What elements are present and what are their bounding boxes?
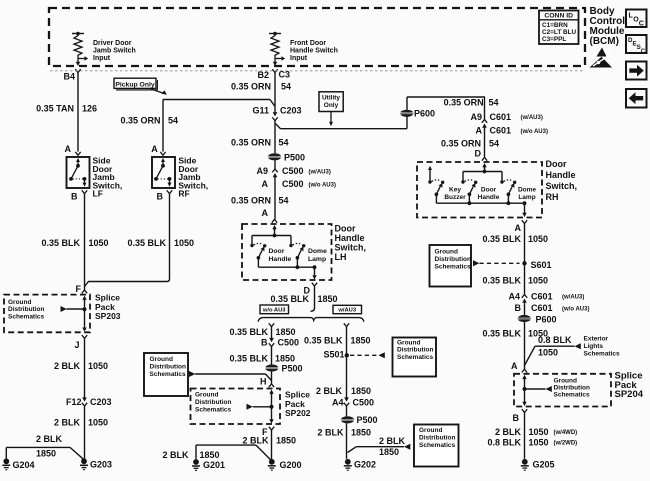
svg-text:B: B [515,303,522,313]
svg-text:0.35 TAN: 0.35 TAN [36,104,74,114]
svg-text:1850: 1850 [318,294,338,304]
svg-text:A9: A9 [470,112,482,122]
svg-text:A: A [515,223,522,233]
svg-text:A: A [476,126,483,136]
svg-text:C2=LT BLU: C2=LT BLU [542,29,577,36]
svg-text:F12: F12 [66,397,82,407]
svg-text:Switch,: Switch, [335,243,367,253]
svg-text:0.35 ORN: 0.35 ORN [231,138,271,148]
svg-text:2 BLK: 2 BLK [242,436,269,446]
svg-text:C500: C500 [282,179,304,189]
svg-text:Buzzer: Buzzer [444,194,466,201]
svg-text:1850: 1850 [36,449,56,459]
svg-text:1050: 1050 [529,427,549,437]
svg-text:54: 54 [489,98,499,108]
svg-text:Door: Door [269,248,285,255]
svg-text:54: 54 [279,196,289,206]
svg-text:0.8 BLK: 0.8 BLK [538,335,572,345]
svg-text:G202: G202 [354,460,376,470]
svg-text:(w/4WD): (w/4WD) [554,430,578,436]
svg-text:w/AU3: w/AU3 [337,308,356,314]
svg-text:2 BLK: 2 BLK [495,427,522,437]
svg-text:1850: 1850 [351,386,371,396]
svg-text:C601: C601 [531,303,553,313]
svg-text:G203: G203 [90,459,112,469]
svg-text:1050: 1050 [88,361,108,371]
svg-text:P500: P500 [282,364,303,374]
svg-text:RH: RH [546,192,559,202]
svg-text:G200: G200 [280,460,302,470]
svg-text:1850: 1850 [200,450,220,460]
svg-text:P600: P600 [536,315,557,325]
svg-text:1850: 1850 [276,327,296,337]
svg-text:B: B [157,192,164,202]
svg-text:2 BLK: 2 BLK [379,436,406,446]
svg-text:Input: Input [290,55,308,62]
svg-text:Schematics: Schematics [150,371,187,378]
svg-text:0.35 BLK: 0.35 BLK [482,234,521,244]
svg-text:SP202: SP202 [285,408,311,418]
svg-text:Ground: Ground [435,249,458,256]
svg-text:1050: 1050 [89,238,109,248]
svg-text:Only: Only [324,102,339,109]
svg-text:C3=PPL: C3=PPL [542,36,566,43]
svg-text:B: B [71,192,78,202]
svg-text:Distribution: Distribution [150,364,186,371]
svg-text:SP203: SP203 [95,311,121,321]
svg-text:2 BLK: 2 BLK [54,361,81,371]
svg-text:(w/AU3): (w/AU3) [309,170,331,176]
svg-text:(w/AU3): (w/AU3) [562,295,584,301]
svg-text:1850: 1850 [276,436,296,446]
svg-text:A4: A4 [332,398,344,408]
svg-text:Handle: Handle [546,170,576,180]
svg-text:(w/o AU3): (w/o AU3) [562,307,589,313]
svg-text:Distribution: Distribution [397,347,433,354]
svg-text:Input: Input [93,55,111,62]
svg-text:S501: S501 [323,350,344,360]
svg-text:B: B [261,338,268,348]
svg-text:1050: 1050 [538,348,558,358]
svg-text:Distribution: Distribution [419,435,455,442]
svg-text:0.8 BLK: 0.8 BLK [487,438,521,448]
svg-text:C: C [641,48,646,55]
svg-text:C601: C601 [490,126,512,136]
svg-text:C: C [639,21,644,28]
svg-text:Schematics: Schematics [8,313,45,320]
svg-text:Lamp: Lamp [518,194,535,201]
svg-text:0.35 BLK: 0.35 BLK [270,294,309,304]
svg-text:1850: 1850 [379,447,399,457]
svg-text:A9: A9 [256,166,268,176]
svg-text:Exterior: Exterior [584,336,609,343]
svg-text:(w/2WD): (w/2WD) [554,441,578,447]
svg-text:54: 54 [489,139,499,149]
svg-text:0.35 ORN: 0.35 ORN [120,116,160,126]
svg-text:G11: G11 [252,106,269,116]
svg-text:Utility: Utility [322,95,340,102]
svg-text:Schematics: Schematics [554,392,591,399]
svg-text:Door: Door [335,224,356,234]
svg-text:Handle: Handle [269,256,292,263]
svg-text:A: A [511,361,518,371]
svg-text:Switch,: Switch, [546,181,578,191]
svg-text:C601: C601 [531,292,553,302]
svg-text:0.35 BLK: 0.35 BLK [304,336,343,346]
svg-text:2 BLK: 2 BLK [317,428,344,438]
svg-text:Lights: Lights [584,343,604,350]
svg-text:C601: C601 [490,112,512,122]
svg-text:w/o AU3: w/o AU3 [262,308,286,314]
svg-text:A: A [262,208,269,218]
svg-text:0.35 BLK: 0.35 BLK [229,327,268,337]
svg-text:54: 54 [279,138,289,148]
svg-text:0.35 ORN: 0.35 ORN [231,196,271,206]
svg-text:P500: P500 [357,415,378,425]
svg-text:54: 54 [168,116,178,126]
svg-text:Schematics: Schematics [195,407,232,414]
svg-text:0.35 BLK: 0.35 BLK [482,276,521,286]
svg-text:Lamp: Lamp [308,256,326,263]
svg-text:0.35 ORN: 0.35 ORN [231,82,271,92]
svg-text:Schematics: Schematics [435,264,472,271]
svg-text:126: 126 [82,104,97,114]
svg-text:Front Door: Front Door [290,40,326,47]
svg-text:(w/AU3): (w/AU3) [521,115,543,121]
svg-text:Distribution: Distribution [554,385,590,392]
svg-text:B2: B2 [257,70,269,80]
svg-text:0.35 ORN: 0.35 ORN [444,98,484,108]
svg-text:Door: Door [546,159,567,169]
svg-text:0.35 BLK: 0.35 BLK [41,238,80,248]
svg-text:Ground: Ground [397,340,420,347]
svg-text:A4: A4 [508,292,520,302]
svg-text:H: H [260,377,267,387]
svg-text:A: A [65,144,72,154]
svg-text:Handle: Handle [478,194,500,201]
svg-text:2 BLK: 2 BLK [162,450,189,460]
svg-text:P500: P500 [284,153,305,163]
svg-text:Schematics: Schematics [584,351,621,358]
svg-text:0.35 BLK: 0.35 BLK [482,329,521,339]
svg-text:2 BLK: 2 BLK [36,434,63,444]
svg-text:D: D [475,148,482,158]
svg-text:G205: G205 [533,460,555,470]
svg-text:LH: LH [335,252,347,262]
svg-text:F: F [76,284,82,294]
svg-text:Ground: Ground [554,378,577,385]
svg-text:Dome: Dome [518,187,536,194]
svg-text:Driver Door: Driver Door [93,40,132,47]
svg-text:A: A [262,179,269,189]
svg-text:C500: C500 [278,338,300,348]
svg-text:S601: S601 [531,260,552,270]
svg-text:B: B [513,413,520,423]
svg-text:2 BLK: 2 BLK [54,418,81,428]
svg-text:54: 54 [281,82,291,92]
svg-text:CONN ID: CONN ID [544,13,573,20]
svg-text:Key: Key [449,187,461,194]
svg-text:2 BLK: 2 BLK [316,386,343,396]
svg-text:C203: C203 [90,397,112,407]
svg-text:C500: C500 [282,166,304,176]
svg-text:Jamb Switch: Jamb Switch [93,48,136,55]
svg-text:1050: 1050 [528,234,548,244]
svg-text:Ground: Ground [195,392,218,399]
svg-text:C1=BRN: C1=BRN [542,22,568,29]
svg-text:A: A [151,144,158,154]
svg-text:SP204: SP204 [615,389,644,400]
svg-text:(w/o AU3): (w/o AU3) [521,129,548,135]
svg-text:Distribution: Distribution [435,256,471,263]
svg-text:1050: 1050 [528,276,548,286]
svg-text:C500: C500 [353,398,375,408]
svg-text:1850: 1850 [351,428,371,438]
svg-text:Schematics: Schematics [397,354,434,361]
svg-text:1850: 1850 [275,354,295,364]
svg-text:Door: Door [481,187,497,194]
svg-text:RF: RF [178,189,189,199]
svg-text:G201: G201 [203,460,225,470]
svg-text:(BCM): (BCM) [590,36,619,47]
svg-text:Ground: Ground [8,299,31,306]
svg-text:0.35 BLK: 0.35 BLK [229,354,268,364]
svg-text:1850: 1850 [351,336,371,346]
svg-text:Pickup Only: Pickup Only [115,81,155,88]
svg-text:Ground: Ground [150,356,173,363]
svg-text:0.35 ORN: 0.35 ORN [441,139,481,149]
svg-text:0.35 BLK: 0.35 BLK [127,238,166,248]
svg-text:Distribution: Distribution [8,306,44,313]
svg-text:(w/o AU3): (w/o AU3) [309,183,336,189]
svg-text:Distribution: Distribution [195,399,231,406]
svg-text:1050: 1050 [174,238,194,248]
svg-text:Handle: Handle [335,233,365,243]
svg-text:B4: B4 [63,72,75,82]
svg-text:1050: 1050 [529,438,549,448]
svg-text:C203: C203 [280,106,302,116]
svg-text:Dome: Dome [308,248,327,255]
svg-text:Handle Switch: Handle Switch [290,48,338,55]
svg-text:Ground: Ground [419,427,442,434]
svg-text:J: J [74,340,79,350]
svg-text:LF: LF [93,189,103,199]
svg-text:C3: C3 [279,70,291,80]
svg-text:P600: P600 [414,109,435,119]
svg-text:G204: G204 [13,460,35,470]
svg-text:Schematics: Schematics [419,442,456,449]
svg-text:1050: 1050 [88,418,108,428]
